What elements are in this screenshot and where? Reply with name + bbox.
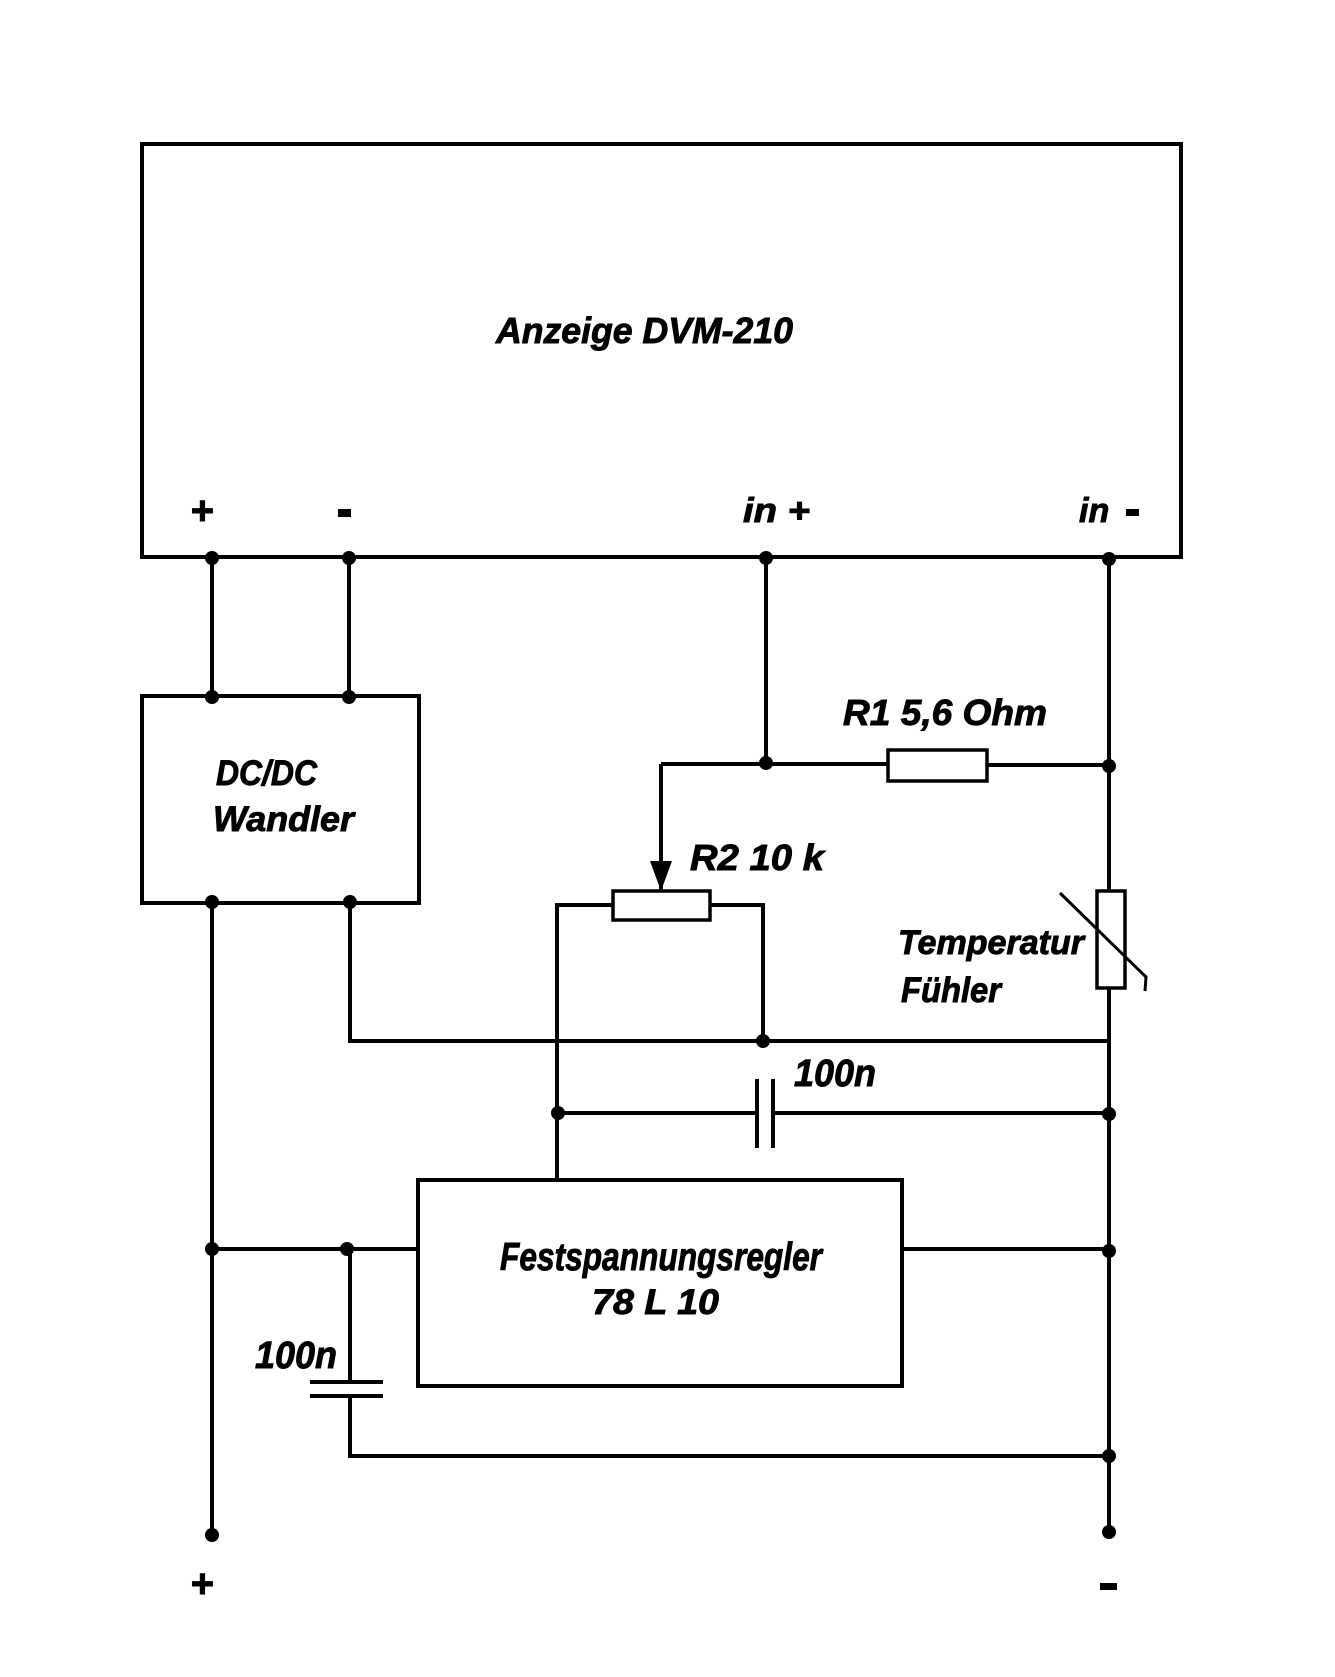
junction node C2 return on in- net: [1102, 1449, 1116, 1463]
wire R1 net horizontal: [661, 762, 888, 766]
thermistor body (Temperatur Fuehler): [1097, 891, 1125, 988]
junction node at U3 pin -: [342, 551, 356, 565]
wire DC/DC bottom-right down then right (net to 78L10 area): [350, 902, 1109, 1041]
svg-text:78 L 10: 78 L 10: [592, 1283, 720, 1322]
junction node C1 right on in- net: [1102, 1107, 1116, 1121]
junction node in+ meets R1 wire: [759, 756, 773, 770]
wire R2 right lead down to 1041 net: [710, 905, 763, 1041]
box U2 Festspannungsregler 78 L 10: [418, 1180, 902, 1386]
svg-text:Festspannungsregler: Festspannungsregler: [500, 1236, 823, 1279]
capacitor C1 right plate: [771, 1079, 775, 1148]
wire C1 right lead: [775, 1111, 1109, 1115]
terminal node + (battery): [205, 1528, 219, 1542]
wire DC/DC bottom-left down to + terminal: [210, 902, 214, 1535]
svg-text:R2 10 k: R2 10 k: [690, 837, 826, 878]
junction node DC/DC bottom-right: [343, 895, 357, 909]
svg-text:Fühler: Fühler: [901, 971, 1003, 1010]
wire U3.in+ down to R1 net: [764, 557, 768, 763]
box U1 DC/DC Wandler: [142, 696, 419, 903]
svg-text:DC/DC: DC/DC: [216, 754, 318, 793]
svg-text:Wandler: Wandler: [213, 800, 356, 839]
resistor R1 body: [888, 750, 987, 781]
potentiometer R2 wiper arrow: [650, 861, 672, 891]
junction node on + rail at U2 input: [205, 1242, 219, 1256]
wire U3.in- down to thermistor top: [1107, 557, 1111, 892]
svg-text:100n: 100n: [255, 1335, 337, 1377]
svg-text:in +: in +: [743, 492, 810, 530]
wire U2 input from + rail: [212, 1247, 418, 1251]
junction node C1 left on R2-left net: [551, 1106, 565, 1120]
wire R1 right lead to in- net: [987, 763, 1109, 767]
junction node U2 output on in- net: [1102, 1244, 1116, 1258]
box U3 Anzeige DVM-210: [142, 144, 1181, 557]
svg-text:Temperatur: Temperatur: [898, 924, 1086, 962]
capacitor C1 left plate: [755, 1079, 759, 1148]
thermistor diagonal stroke: [1060, 893, 1146, 991]
wire C2 top lead: [348, 1249, 352, 1382]
junction node C2 tap on U2 input wire: [340, 1242, 354, 1256]
wire U2 output to in- net: [902, 1247, 1109, 1251]
svg-text:R1 5,6 Ohm: R1 5,6 Ohm: [843, 692, 1047, 733]
capacitor C2 bottom plate: [310, 1394, 383, 1398]
svg-text:+: +: [190, 489, 213, 533]
wire U3.+ to DC/DC top-left: [210, 557, 214, 697]
capacitor C2 top plate: [310, 1380, 383, 1384]
wire R2 wiper drop from R1 net corner: [659, 764, 663, 862]
potentiometer R2 body: [613, 891, 710, 920]
wire R2 left lead down to C1 net: [557, 905, 613, 1181]
junction node at U3 pin +: [205, 551, 219, 565]
junction node R2 right lead on 1041 net: [756, 1034, 770, 1048]
junction node at U3 pin in-: [1102, 552, 1116, 566]
wire thermistor bottom down to - terminal (in- net): [1107, 987, 1111, 1532]
junction node DC/DC top-left: [205, 690, 219, 704]
terminal node - (battery): [1102, 1525, 1116, 1539]
junction node DC/DC bottom-left: [205, 895, 219, 909]
pin label - (U3): [338, 509, 351, 517]
label - terminal: [1100, 1583, 1117, 1590]
junction node at U3 pin in+: [759, 551, 773, 565]
svg-text:Anzeige DVM-210: Anzeige DVM-210: [495, 310, 793, 351]
svg-text:100n: 100n: [794, 1053, 876, 1095]
svg-text:in: in: [1079, 492, 1109, 530]
svg-text:+: +: [190, 1562, 213, 1606]
junction node DC/DC top-right: [342, 690, 356, 704]
wire C1 left lead: [557, 1111, 755, 1115]
wire C2 bottom lead down then right to in- net: [350, 1396, 1109, 1456]
junction node R1 right on in- net: [1102, 759, 1116, 773]
wire U3.- to DC/DC top-right: [347, 557, 351, 697]
